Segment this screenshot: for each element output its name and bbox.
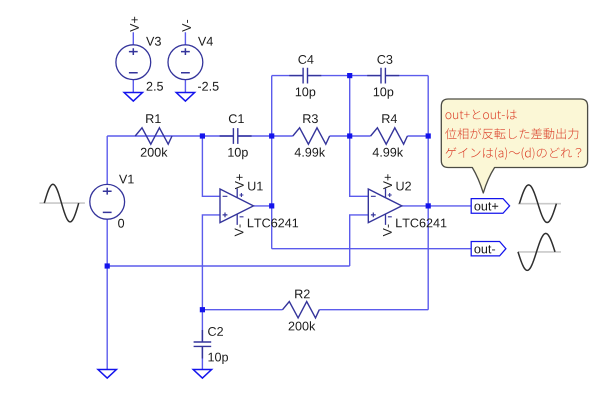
C1 value label 10p	[228, 148, 248, 159]
U1 reference label	[248, 182, 263, 191]
callout text line 2: 位相が反転した差動出力	[445, 128, 578, 139]
voltage source V1	[90, 184, 125, 219]
R2 value label 200k	[289, 321, 316, 330]
wire left column x3 C4 to out- corner	[271, 76, 273, 249]
resistor R2	[283, 302, 320, 318]
junction node R4 right	[426, 133, 431, 138]
input waveform baseline	[39, 202, 85, 204]
ground below V4	[176, 93, 194, 102]
wire R2 row	[202, 309, 428, 311]
capacitor C4	[289, 68, 321, 84]
out+ flag text	[474, 202, 498, 210]
ground below C2	[193, 370, 211, 379]
V- net label above V4	[182, 20, 191, 32]
R4 reference label	[382, 114, 397, 123]
wire right column x5 C3 to R2 corner	[427, 76, 429, 310]
V1 value label 0	[118, 219, 124, 228]
junction node R1-C1	[200, 133, 205, 138]
op-amp U1	[220, 189, 254, 223]
out+ sine wave	[519, 185, 556, 223]
ground below V3	[124, 93, 142, 102]
U2 V+ supply net label	[383, 174, 392, 189]
U1 value label LTC6241	[248, 219, 298, 228]
capacitor C3	[367, 68, 399, 84]
capacitor C2	[194, 330, 212, 359]
C4 reference label	[298, 55, 313, 64]
C3 value label 10p	[374, 87, 394, 98]
resistor R1	[135, 128, 172, 144]
wire U2 output to node column	[402, 205, 428, 207]
wire main row R3 to R4	[330, 135, 371, 137]
wire V3 stubs	[132, 32, 134, 92]
wire U2 noninverting input to V1 bottom row	[350, 215, 369, 266]
V1 reference label	[119, 175, 134, 184]
U1 V- supply net label	[235, 225, 244, 237]
R3 reference label	[303, 114, 318, 123]
net flag out-	[471, 242, 506, 256]
V4 value label -2.5	[198, 82, 219, 91]
junction node U2 output / out+	[426, 203, 431, 208]
wire V4 stubs	[184, 32, 186, 92]
junction node U1 output	[269, 203, 274, 208]
voltage source V4	[168, 45, 203, 80]
V+ net label above V3	[130, 17, 139, 32]
callout text line 1: out+とout-は	[446, 110, 517, 120]
R1 value label 200k	[141, 148, 168, 157]
out- sine wave (inverted)	[518, 233, 555, 270]
resistor R3	[293, 128, 330, 144]
V4 reference label	[198, 37, 213, 46]
junction node R2-C2 / U1 +in	[200, 307, 205, 312]
out+ waveform baseline	[518, 203, 561, 205]
wire V1 top to R1 row	[106, 136, 108, 185]
capacitor C1	[220, 128, 252, 144]
C4 value label 10p	[296, 87, 316, 98]
out- flag text	[474, 245, 495, 253]
wire V1 bottom to ground	[106, 219, 108, 370]
annotation callout bubble	[441, 99, 587, 193]
out- waveform baseline	[518, 251, 561, 253]
U2 value label LTC6241	[396, 219, 446, 228]
wire C2 stubs	[201, 310, 203, 370]
U2 reference label	[397, 182, 412, 191]
input sine wave at V1	[44, 184, 78, 222]
junction node C4-C3	[347, 73, 352, 78]
C1 reference label	[229, 114, 244, 123]
R1 reference label	[146, 114, 161, 123]
junction node R3-R4	[347, 133, 352, 138]
ground below V1 node	[98, 370, 116, 379]
callout text line 3: ゲインは(a)～(d)のどれ？	[446, 147, 582, 159]
op-amp U2	[368, 189, 402, 223]
wire out+ run to flag	[428, 205, 471, 207]
U2 V- supply net label	[383, 225, 392, 237]
wire top row C4	[272, 75, 381, 77]
junction node V1 bottom	[105, 263, 110, 268]
junction node C1-R3 / U1 out column	[269, 133, 274, 138]
wire U1 output to node column	[254, 205, 272, 207]
wire U1 noninverting input down to R2/C2 junction	[202, 215, 220, 310]
wire x2 column junction down to U1 inverting input	[202, 136, 220, 196]
wire main row R4 right	[407, 135, 428, 137]
R3 value label 4.99k	[295, 148, 326, 157]
wire V1 bottom row	[107, 265, 350, 267]
wire main row R1 to C1 left	[107, 135, 233, 137]
voltage source V3	[116, 45, 151, 80]
U1 V+ supply net label	[235, 174, 244, 189]
net flag out+	[471, 199, 509, 214]
wire top row C3 right	[385, 75, 428, 77]
V3 value label 2.5	[147, 82, 163, 91]
C2 reference label	[208, 327, 223, 336]
C3 reference label	[377, 55, 392, 64]
wire out- run to flag	[272, 248, 471, 250]
wire mid column x4 C34 junction down to U2 inverting input	[350, 76, 369, 197]
V3 reference label	[146, 37, 161, 46]
C2 value label 10p	[209, 353, 229, 364]
R2 reference label	[295, 290, 310, 299]
resistor R4	[371, 128, 408, 144]
wire main row C1 right to R3	[238, 135, 293, 137]
R4 value label 4.99k	[373, 148, 404, 157]
